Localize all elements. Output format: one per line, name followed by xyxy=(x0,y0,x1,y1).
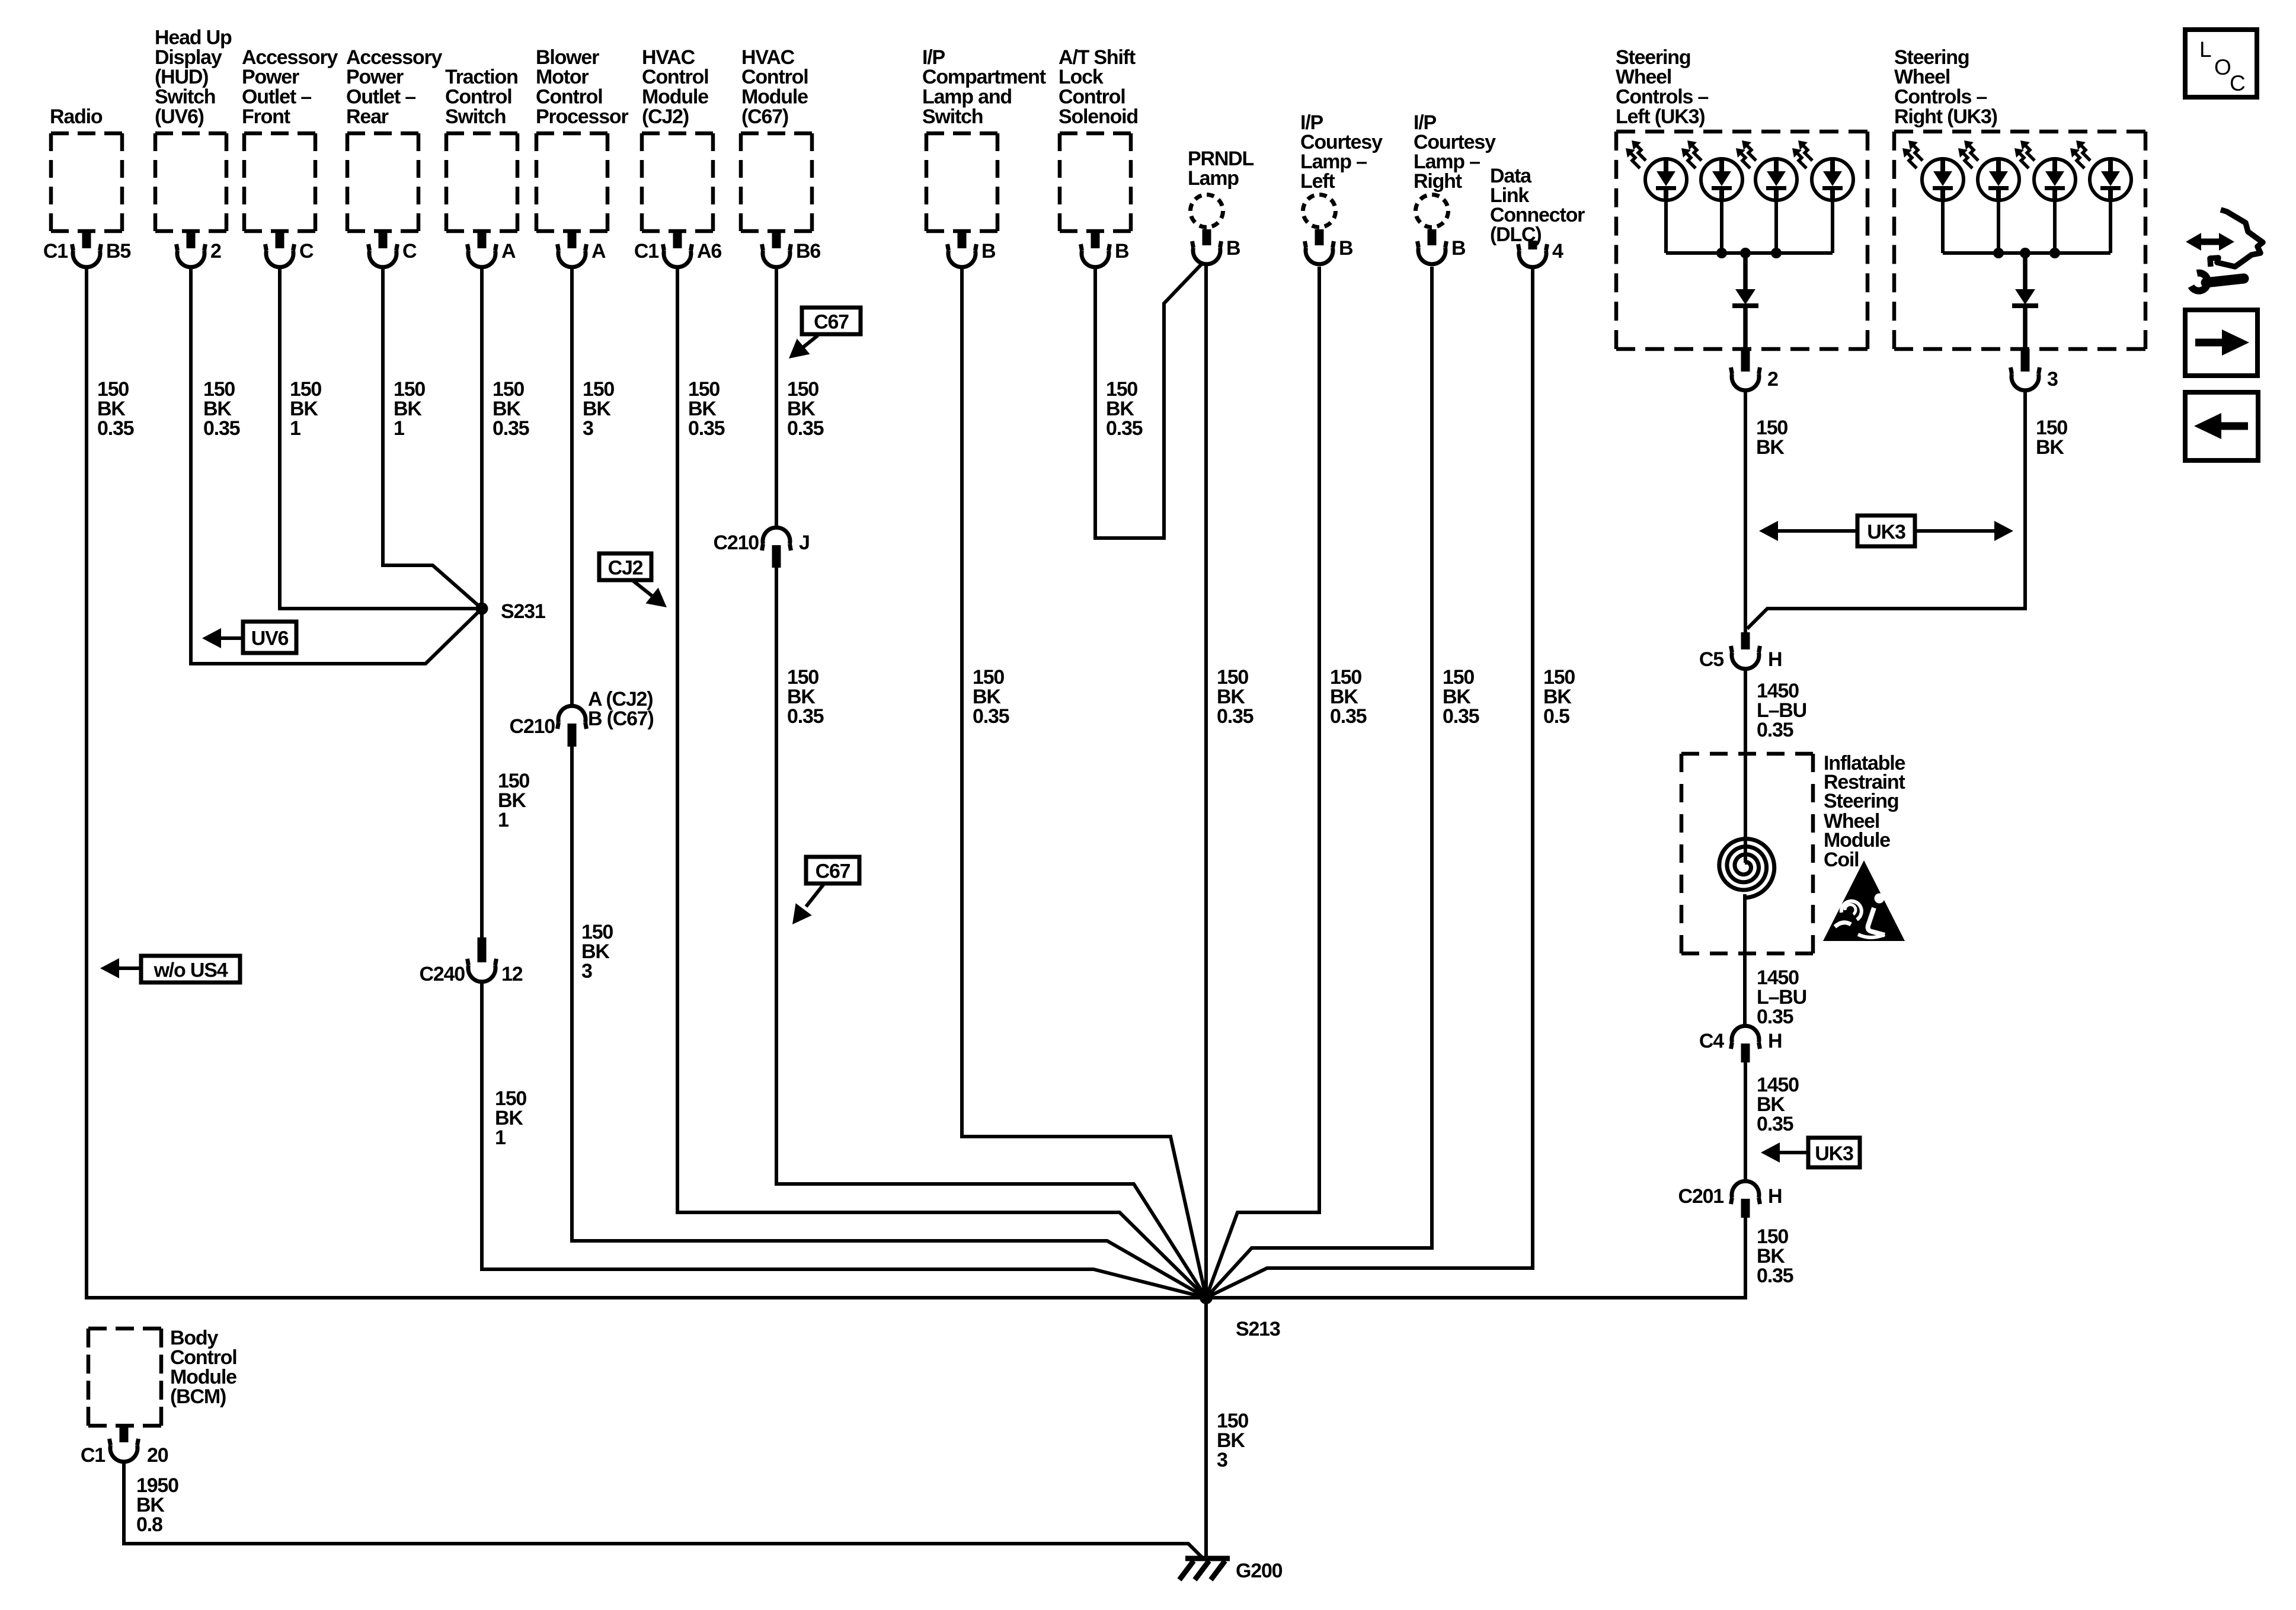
label 150 BK 0.35 traction wire xyxy=(493,378,529,440)
svg-text:B (C67): B (C67) xyxy=(588,708,654,730)
label 150 BK 0.35 radio wire xyxy=(97,378,134,440)
svg-text:(C67): (C67) xyxy=(741,105,788,128)
svg-text:0.35: 0.35 xyxy=(203,417,240,440)
svg-text:B: B xyxy=(1115,240,1129,263)
svg-text:C1: C1 xyxy=(81,1444,105,1467)
svg-text:3: 3 xyxy=(583,417,593,440)
svg-text:0.35: 0.35 xyxy=(1757,719,1793,741)
component traction control switch with connector pins xyxy=(445,66,518,267)
svg-text:G200: G200 xyxy=(1236,1560,1283,1582)
svg-text:Left (UK3): Left (UK3) xyxy=(1616,105,1705,128)
connector pin 2 below steering wheel controls Left (UK3) xyxy=(1731,349,1779,391)
svg-text:1: 1 xyxy=(290,417,300,440)
wire C67 below C210 to S213 xyxy=(776,568,1206,1298)
label 150 BK 0.35 AT shift wire xyxy=(1106,378,1143,440)
svg-text:Accessory: Accessory xyxy=(242,46,338,69)
component data link connector DLC pin 4 xyxy=(1490,165,1585,267)
flag UK3 double arrow between steering wires xyxy=(1759,516,2013,546)
svg-text:Solenoid: Solenoid xyxy=(1059,105,1138,128)
svg-text:Switch: Switch xyxy=(155,86,215,108)
svg-text:B5: B5 xyxy=(106,240,130,263)
svg-text:Steering: Steering xyxy=(1824,790,1898,812)
svg-text:B: B xyxy=(1451,237,1466,260)
label inflatable restraint steering wheel module coil xyxy=(1824,752,1905,871)
svg-text:B: B xyxy=(981,240,996,263)
svg-text:Switch: Switch xyxy=(445,105,506,128)
connector C240 pin 12 on traction wire xyxy=(420,937,523,985)
svg-text:B: B xyxy=(1339,237,1353,260)
wire accessory outlet front 150 BK 1 to S231 xyxy=(280,267,477,609)
wire PRNDL lamp to S213 xyxy=(1204,264,1208,1298)
label 150 BK 0.35 CJ2 wire xyxy=(688,378,725,440)
component HVAC control module C67 with connector pins xyxy=(741,46,820,267)
wire HUD switch pin 2 150 BK 0.35 to S231 xyxy=(191,267,482,664)
svg-text:0.35: 0.35 xyxy=(1757,1006,1793,1028)
connector C201 pin H xyxy=(1678,1181,1782,1218)
svg-text:Steering: Steering xyxy=(1616,46,1690,69)
svg-text:1: 1 xyxy=(394,417,404,440)
svg-text:(HUD): (HUD) xyxy=(155,66,208,88)
label 1450 L-BU 0.35 above coil xyxy=(1757,680,1806,741)
label 1950 BK 0.8 BCM wire xyxy=(136,1474,178,1536)
component steering wheel controls Left (UK3) xyxy=(1616,46,1868,349)
svg-text:3: 3 xyxy=(1217,1449,1227,1471)
flag C67 upper with arrow xyxy=(789,308,861,359)
svg-text:0.35: 0.35 xyxy=(1106,417,1143,440)
coil spiral symbol and wire through it xyxy=(1719,668,1774,1026)
component PRNDL lamp xyxy=(1188,148,1254,264)
splice S231 xyxy=(476,603,488,615)
LED 2 in steering wheel controls Right (UK3) with illumination arrows xyxy=(1958,140,2019,253)
svg-text:12: 12 xyxy=(501,963,523,985)
flag UV6 with left arrow xyxy=(202,622,296,653)
label 150 BK 0.35 IP compartment wire xyxy=(973,666,1009,728)
svg-text:BK: BK xyxy=(2036,436,2064,459)
wire HVAC C67 pin B6 150 BK 0.35 upper segment xyxy=(775,267,778,528)
svg-text:CJ2: CJ2 xyxy=(608,557,643,580)
svg-text:Control: Control xyxy=(445,86,511,108)
label 150 BK 0.35 courtesy left wire xyxy=(1330,666,1367,728)
component steering wheel controls Right (UK3) xyxy=(1894,46,2145,349)
svg-text:Accessory: Accessory xyxy=(346,46,442,69)
svg-text:Head Up: Head Up xyxy=(155,26,232,49)
svg-text:HVAC: HVAC xyxy=(642,46,695,69)
wire S213 to ground 150 BK 3 xyxy=(1204,1298,1208,1558)
svg-text:20: 20 xyxy=(147,1444,168,1467)
wire Radio pin B5 ground 150 BK 0.35 to S213 xyxy=(87,267,1206,1298)
diode and output wire Right (UK3) xyxy=(2012,253,2038,350)
svg-text:C: C xyxy=(2230,71,2246,95)
label S231 xyxy=(501,600,545,623)
LED 4 in steering wheel controls Right (UK3) with illumination arrows xyxy=(2070,140,2131,253)
svg-text:H: H xyxy=(1768,1030,1782,1052)
svg-text:O: O xyxy=(2214,55,2231,79)
svg-text:Right: Right xyxy=(1414,170,1462,193)
svg-text:J: J xyxy=(799,532,810,554)
wire IP courtesy lamp right to S213 xyxy=(1206,267,1432,1298)
legend box with left arrow xyxy=(2185,392,2258,460)
svg-text:UV6: UV6 xyxy=(251,628,289,650)
component IP compartment lamp and switch with connector pins xyxy=(922,46,1046,267)
label 150 BK 1 below S231 xyxy=(498,770,529,831)
svg-text:0.35: 0.35 xyxy=(1443,705,1479,728)
wire IP compartment lamp 150 BK 0.35 to S213 xyxy=(962,267,1206,1298)
label 150 BK 0.35 C67 wire upper xyxy=(787,378,824,440)
component IP courtesy lamp right xyxy=(1414,111,1496,264)
svg-text:0.35: 0.35 xyxy=(787,705,824,728)
svg-text:C1: C1 xyxy=(43,240,68,263)
flag C67 lower with arrow xyxy=(792,857,859,924)
svg-text:2: 2 xyxy=(210,240,221,263)
svg-text:S213: S213 xyxy=(1236,1318,1280,1340)
svg-text:(BCM): (BCM) xyxy=(170,1385,226,1408)
wire BCM pin 20 1950 BK 0.8 to ground xyxy=(124,1461,1203,1558)
svg-text:Rear: Rear xyxy=(346,105,389,128)
label 150 BK 0.35 PRNDL wire xyxy=(1217,666,1253,728)
svg-text:Control: Control xyxy=(536,86,602,108)
svg-text:3: 3 xyxy=(2047,368,2058,391)
svg-text:H: H xyxy=(1768,1185,1782,1208)
wire C4 to C201 segment xyxy=(1744,1062,1747,1182)
svg-text:0.35: 0.35 xyxy=(493,417,529,440)
wire traction control switch 150 BK 0.35 to S231 xyxy=(480,267,484,937)
LED common bus with junction dots Left (UK3) xyxy=(1666,248,1833,258)
svg-text:Switch: Switch xyxy=(922,105,983,128)
svg-text:Motor: Motor xyxy=(536,66,589,88)
svg-text:HVAC: HVAC xyxy=(741,46,795,69)
svg-text:L: L xyxy=(2199,37,2212,62)
diode and output wire Left (UK3) xyxy=(1732,253,1758,350)
component Radio with connector pins xyxy=(43,105,130,267)
svg-text:C240: C240 xyxy=(420,963,465,985)
LED 2 in steering wheel controls Left (UK3) with illumination arrows xyxy=(1681,140,1742,253)
svg-text:Lock: Lock xyxy=(1059,66,1104,88)
svg-text:0.35: 0.35 xyxy=(1217,705,1253,728)
LED 4 in steering wheel controls Left (UK3) with illumination arrows xyxy=(1792,140,1853,253)
svg-text:Processor: Processor xyxy=(536,105,628,128)
component inflatable restraint steering wheel module coil dashed box xyxy=(1681,754,1813,953)
svg-text:C: C xyxy=(299,240,314,263)
svg-text:w/o US4: w/o US4 xyxy=(154,959,228,982)
svg-text:3: 3 xyxy=(581,960,592,982)
label 150 BK 1 outlet front wire xyxy=(290,378,321,440)
svg-text:Coil: Coil xyxy=(1824,849,1859,871)
svg-text:A: A xyxy=(501,240,516,263)
svg-text:UK3: UK3 xyxy=(1815,1142,1853,1165)
svg-text:Controls –: Controls – xyxy=(1616,86,1708,108)
svg-text:Radio: Radio xyxy=(50,105,103,128)
SRS airbag warning triangle icon xyxy=(1823,860,1905,941)
svg-text:Left: Left xyxy=(1300,170,1335,193)
svg-text:Wheel: Wheel xyxy=(1616,66,1671,88)
wire DLC pin 4 150 BK 0.5 to S213 xyxy=(1206,267,1533,1298)
svg-text:C67: C67 xyxy=(814,311,849,334)
svg-text:B: B xyxy=(1226,237,1240,260)
svg-text:A6: A6 xyxy=(697,240,721,263)
label 150 BK 0.35 below C201 xyxy=(1757,1225,1793,1287)
wire steering right connector 3 joining left wire xyxy=(1747,390,2025,629)
flag UK3 with left arrow at right branch xyxy=(1761,1138,1860,1167)
svg-text:2: 2 xyxy=(1767,368,1778,391)
svg-text:C4: C4 xyxy=(1699,1030,1724,1052)
connector C4 pin H xyxy=(1699,1026,1782,1062)
component body control module BCM xyxy=(81,1327,237,1467)
component HUD switch with connector pins xyxy=(155,26,232,267)
svg-text:UK3: UK3 xyxy=(1867,521,1905,543)
label 1450 BK 0.35 below C4 xyxy=(1757,1074,1799,1135)
svg-text:0.35: 0.35 xyxy=(1757,1265,1793,1287)
wire traction below C240 to S213 xyxy=(482,981,1206,1298)
component blower motor control processor with connector pins xyxy=(536,46,628,267)
svg-text:C201: C201 xyxy=(1678,1185,1724,1208)
svg-text:4: 4 xyxy=(1552,240,1563,263)
component AT shift lock control solenoid with connector pins xyxy=(1059,46,1138,267)
ground G200 symbol xyxy=(1179,1558,1230,1580)
label 150 BK 0.35 courtesy right wire xyxy=(1443,666,1479,728)
svg-text:C1: C1 xyxy=(634,240,658,263)
label 1450 L-BU 0.35 above C4 xyxy=(1757,966,1806,1028)
label 150 BK 3 blower wire xyxy=(583,378,614,440)
wire C201 to S213 xyxy=(1206,1218,1745,1298)
svg-text:C: C xyxy=(402,240,417,263)
flag w/o US4 with left arrow xyxy=(100,956,240,982)
component accessory outlet rear with connector pins xyxy=(346,46,442,267)
svg-text:Control: Control xyxy=(1059,86,1125,108)
svg-text:Steering: Steering xyxy=(1894,46,1969,69)
svg-text:I/P: I/P xyxy=(922,46,945,69)
wire AT shift lock solenoid 150 BK 0.35 joining PRNDL wire xyxy=(1095,263,1203,538)
label G200 xyxy=(1236,1560,1283,1582)
svg-text:C67: C67 xyxy=(816,860,850,883)
splice S213 xyxy=(1200,1291,1213,1304)
svg-text:Outlet –: Outlet – xyxy=(346,86,415,108)
label 150 BK right steering wire xyxy=(2036,417,2067,459)
svg-text:(UV6): (UV6) xyxy=(155,105,204,128)
flag CJ2 with arrow pointing to wire xyxy=(599,553,667,607)
svg-text:C210: C210 xyxy=(714,532,759,554)
label 150 BK 3 ground wire xyxy=(1217,1410,1248,1471)
svg-text:0.35: 0.35 xyxy=(97,417,134,440)
LED 3 in steering wheel controls Right (UK3) with illumination arrows xyxy=(2014,140,2076,253)
wire IP courtesy lamp left to S213 xyxy=(1206,267,1319,1298)
svg-text:Module: Module xyxy=(741,86,808,108)
svg-text:Lamp: Lamp xyxy=(1188,167,1239,190)
svg-text:BK: BK xyxy=(1756,436,1785,459)
svg-text:B6: B6 xyxy=(796,240,820,263)
svg-text:C5: C5 xyxy=(1699,648,1723,671)
LOC legend box xyxy=(2185,30,2257,97)
svg-text:Blower: Blower xyxy=(536,46,599,69)
wire accessory outlet rear 150 BK 1 to S231 xyxy=(383,267,482,609)
label 150 BK 0.35 HUD wire xyxy=(203,378,240,440)
svg-text:(CJ2): (CJ2) xyxy=(642,105,689,128)
svg-text:Module: Module xyxy=(642,86,708,108)
component accessory outlet front with connector pins xyxy=(242,46,338,267)
svg-text:Display: Display xyxy=(155,46,222,69)
svg-text:A/T Shift: A/T Shift xyxy=(1059,46,1136,69)
label 150 BK 0.35 C67 wire lower xyxy=(787,666,824,728)
connector C210 pin J on C67 wire xyxy=(714,527,810,568)
svg-text:C210: C210 xyxy=(510,715,555,738)
svg-text:Front: Front xyxy=(242,105,290,128)
svg-text:0.35: 0.35 xyxy=(787,417,824,440)
svg-text:1: 1 xyxy=(498,809,509,831)
wire blower motor 150 BK 3 upper segment xyxy=(570,267,574,706)
svg-text:Outlet –: Outlet – xyxy=(242,86,311,108)
wire blower below C210 to S213 xyxy=(572,747,1206,1298)
svg-text:H: H xyxy=(1768,648,1782,671)
label 150 BK 0.5 DLC wire xyxy=(1543,666,1575,728)
component IP courtesy lamp left xyxy=(1300,111,1383,264)
svg-text:Wheel: Wheel xyxy=(1894,66,1950,88)
svg-text:Lamp and: Lamp and xyxy=(922,86,1012,108)
legend box with right arrow xyxy=(2185,310,2257,376)
connector pin 3 below steering wheel controls Right (UK3) xyxy=(2011,349,2058,391)
component HVAC control module CJ2 with connector pins xyxy=(634,46,721,267)
svg-text:Power: Power xyxy=(242,66,299,88)
adjust hand and wrench icon xyxy=(2186,210,2263,291)
LED 3 in steering wheel controls Left (UK3) with illumination arrows xyxy=(1736,140,1797,253)
svg-text:Right (UK3): Right (UK3) xyxy=(1894,105,1997,128)
svg-text:0.35: 0.35 xyxy=(973,705,1009,728)
label 150 BK 1 below C240 xyxy=(495,1087,526,1149)
svg-text:0.5: 0.5 xyxy=(1543,705,1569,728)
svg-text:Control: Control xyxy=(741,66,808,88)
svg-text:0.35: 0.35 xyxy=(1330,705,1367,728)
svg-text:0.35: 0.35 xyxy=(688,417,725,440)
wire steering left connector 2 down 150 BK xyxy=(1744,390,1747,632)
connector C5 pin H xyxy=(1699,632,1782,671)
svg-text:1: 1 xyxy=(495,1126,506,1149)
svg-text:Compartment: Compartment xyxy=(922,66,1046,88)
svg-text:Control: Control xyxy=(642,66,708,88)
connector C210 pins A CJ2 B C67 on blower wire xyxy=(510,688,654,747)
LED 1 in steering wheel controls Right (UK3) with illumination arrows xyxy=(1902,140,1964,253)
label 150 BK 3 below C210 xyxy=(581,921,613,982)
label S213 xyxy=(1236,1318,1280,1340)
svg-text:0.35: 0.35 xyxy=(1757,1113,1793,1135)
LED common bus with junction dots Right (UK3) xyxy=(1943,248,2110,258)
svg-text:Power: Power xyxy=(346,66,404,88)
svg-text:S231: S231 xyxy=(501,600,545,623)
svg-text:Traction: Traction xyxy=(445,66,518,88)
svg-text:0.8: 0.8 xyxy=(136,1513,162,1536)
label 150 BK 1 outlet rear wire xyxy=(394,378,425,440)
svg-text:Controls –: Controls – xyxy=(1894,86,1987,108)
wire HVAC CJ2 pin A6 150 BK 0.35 to S213 xyxy=(677,267,1206,1298)
label 150 BK left steering wire xyxy=(1756,417,1787,459)
LED 1 in steering wheel controls Left (UK3) with illumination arrows xyxy=(1626,140,1687,253)
svg-text:A: A xyxy=(591,240,606,263)
